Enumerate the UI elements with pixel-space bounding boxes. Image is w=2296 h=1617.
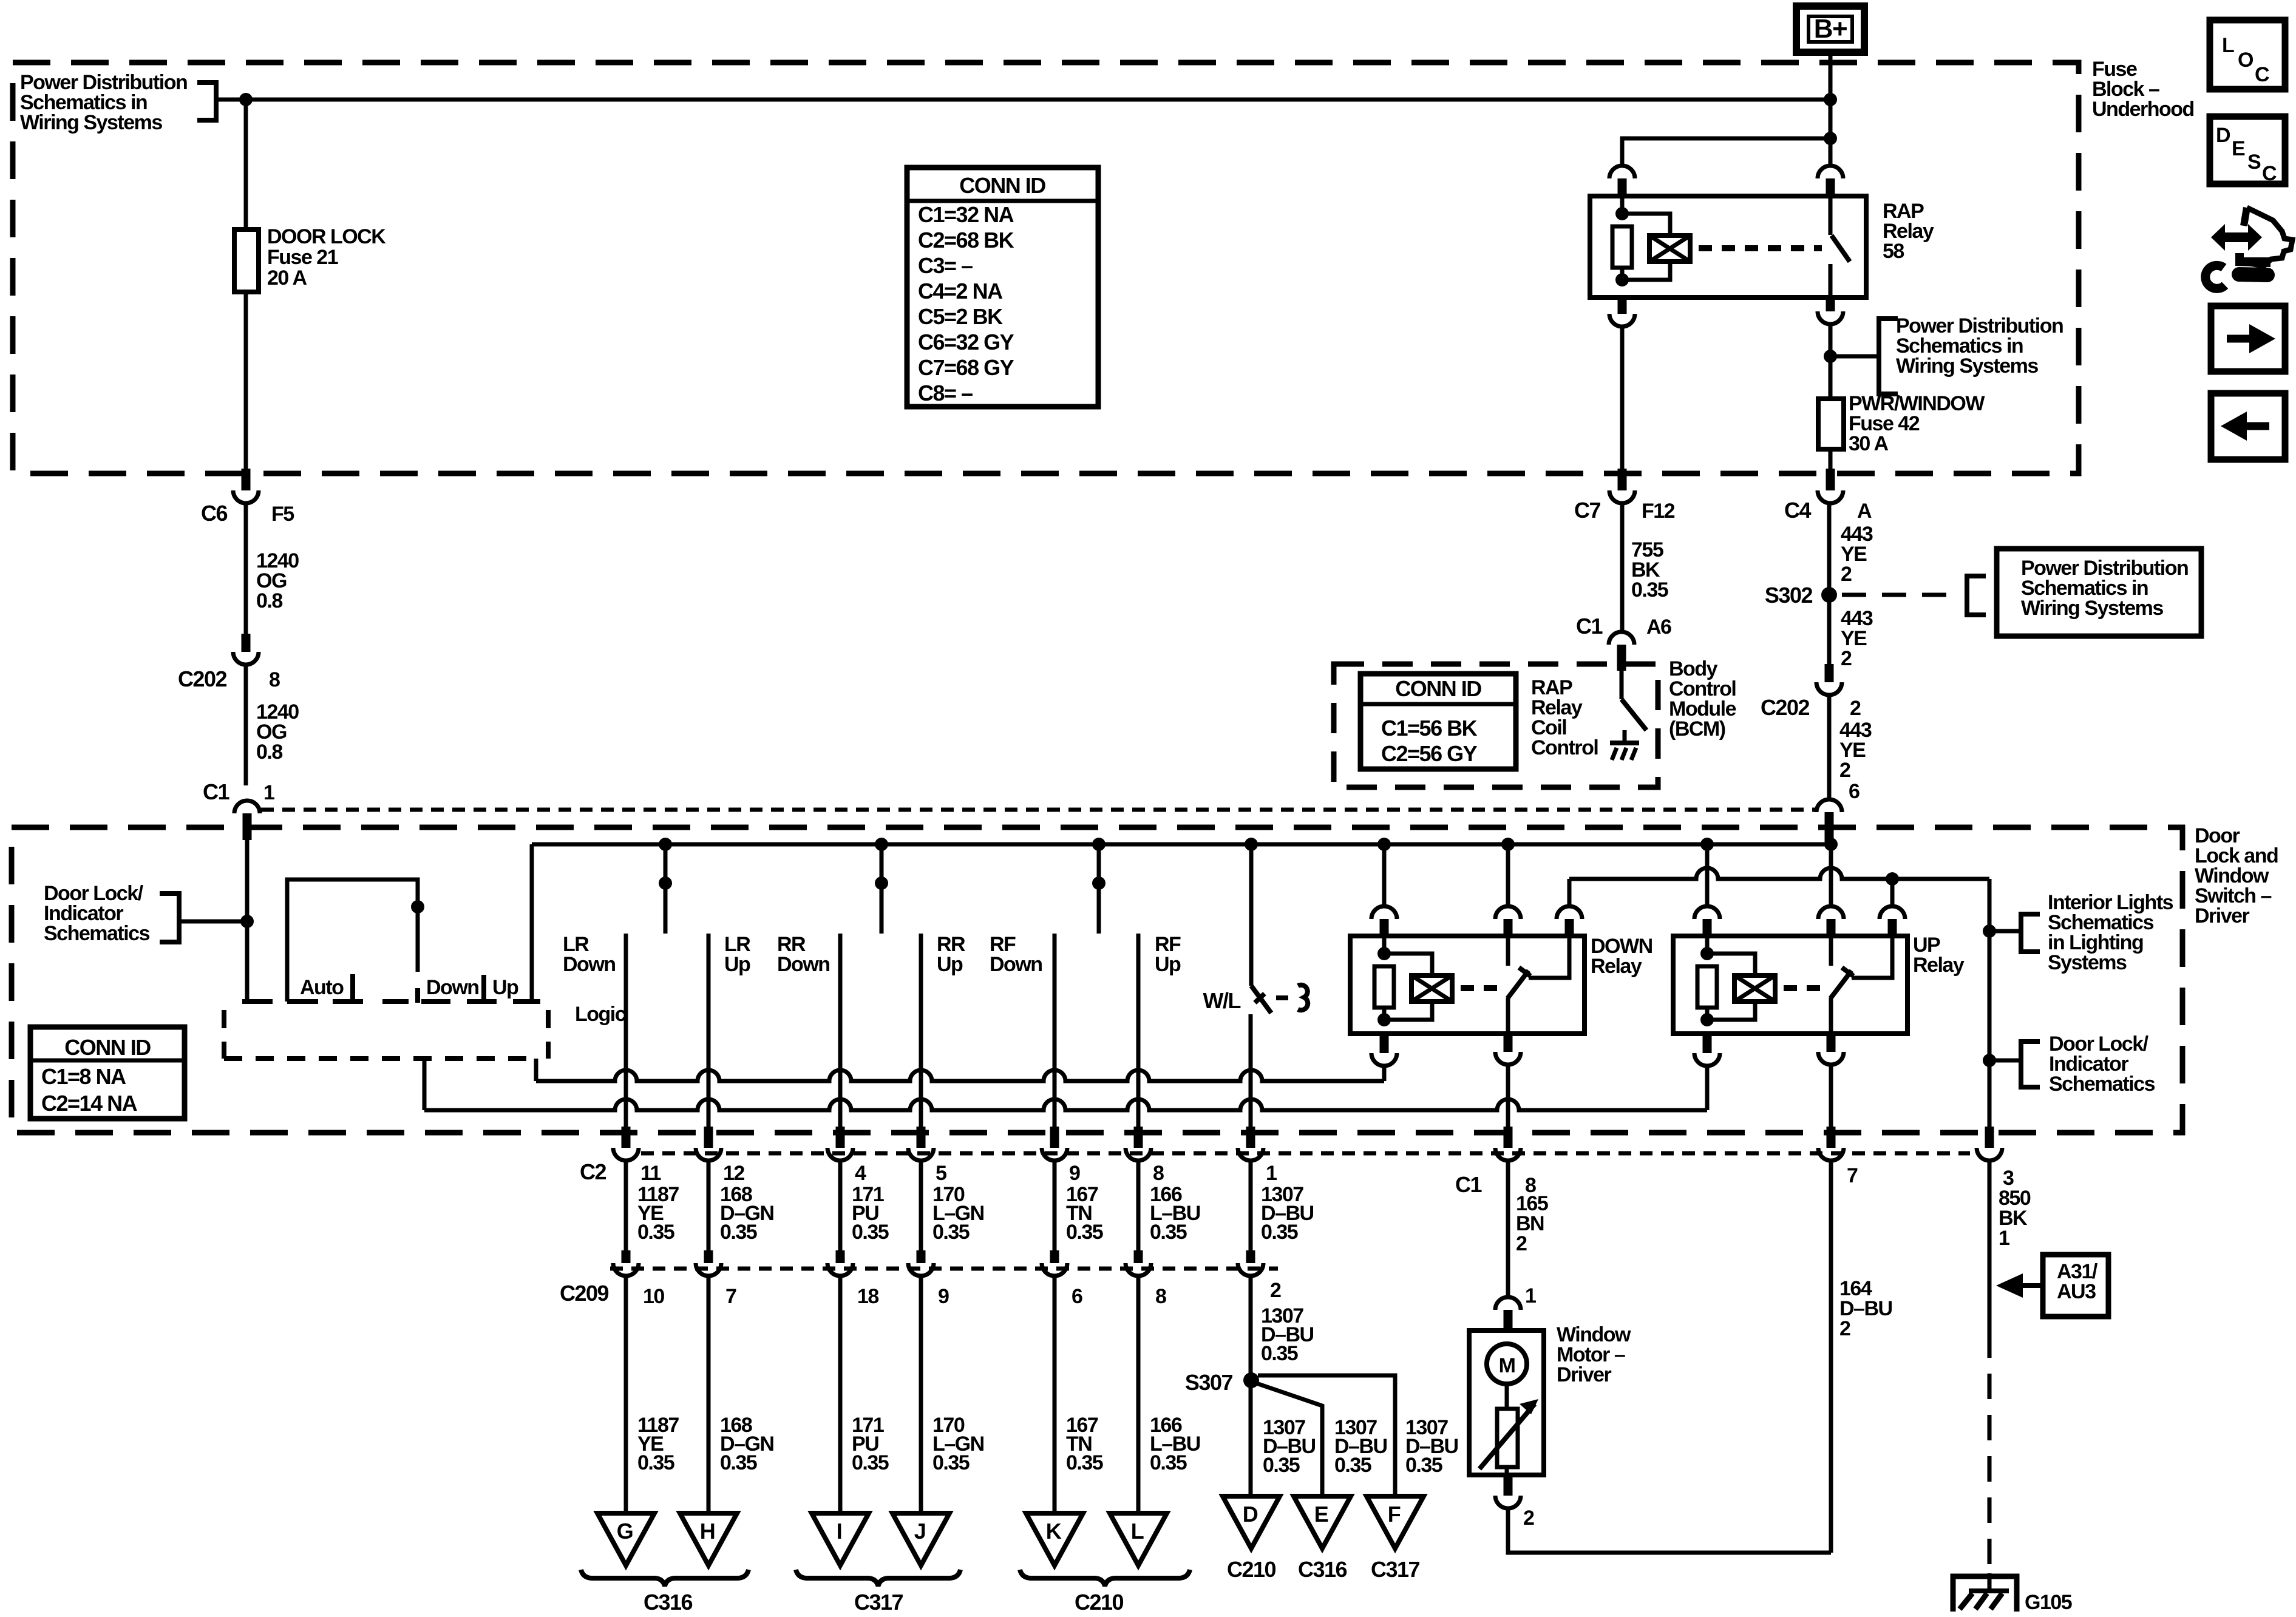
svg-text:C202: C202 — [178, 666, 227, 691]
wire fuse 42 to C4 — [1829, 449, 1833, 469]
wire B+ down to feed — [1829, 52, 1833, 166]
DOWN relay switch — [1506, 936, 1510, 966]
svg-text:Driver: Driver — [1557, 1363, 1612, 1386]
svg-text:C7=68 GY: C7=68 GY — [918, 355, 1014, 380]
wire 171 PU 0.35 lower — [838, 1276, 843, 1513]
ground G105 — [1953, 1576, 2017, 1612]
switch contact tick Down — [415, 988, 420, 1003]
wire switch output 171 PU upper — [838, 934, 843, 1129]
svg-text:A: A — [1857, 500, 1872, 523]
RAP relay box — [1590, 196, 1866, 297]
svg-text:CONN ID: CONN ID — [64, 1035, 151, 1060]
icon hand wrench — [2211, 224, 2262, 251]
terminator triangle J — [892, 1513, 949, 1565]
svg-text:O: O — [2238, 49, 2254, 72]
connector RAP relay switch pin bottom — [1826, 296, 1835, 311]
svg-text:Systems: Systems — [2048, 951, 2127, 974]
svg-text:2: 2 — [1850, 697, 1861, 720]
ground BCM internal — [1623, 730, 1627, 743]
wire 164 D-BU 2 — [1829, 1161, 1833, 1553]
bracket power distribution right — [1879, 319, 1898, 394]
UP relay box — [1673, 936, 1907, 1034]
switch contact tick Up — [481, 975, 486, 1003]
svg-text:G: G — [617, 1519, 633, 1544]
svg-text:Down: Down — [563, 953, 616, 976]
svg-text:C210: C210 — [1075, 1590, 1124, 1615]
svg-text:C209: C209 — [560, 1281, 609, 1306]
connector C2 pin 12 — [704, 1127, 713, 1148]
splice S302 — [1821, 587, 1837, 603]
svg-text:CONN ID: CONN ID — [959, 173, 1045, 198]
connector C1 pin 7 — [1827, 1127, 1836, 1148]
svg-text:Wiring Systems: Wiring Systems — [20, 111, 162, 134]
wire relay aux link — [1569, 868, 1989, 879]
svg-text:1: 1 — [1999, 1227, 2009, 1250]
UP relay coil resistor — [1705, 936, 1710, 954]
terminator triangle K — [1026, 1513, 1083, 1565]
wire interior lights drop — [1988, 879, 1992, 1129]
switch rocker outline — [287, 880, 418, 1002]
dashed link W/L — [1276, 995, 1288, 1000]
wire 850 BK 1 — [1988, 1161, 1992, 1332]
connector DOWN relay switch pin top — [1495, 906, 1521, 919]
node switch logic junction — [240, 915, 254, 928]
bracket door lock indicator left — [160, 893, 179, 942]
terminator triangle E — [1294, 1496, 1351, 1548]
wire bracket to switch — [179, 920, 247, 924]
door lock and window switch driver dashed box — [12, 827, 2182, 1133]
connector C202 pin 8 (left) — [242, 634, 251, 652]
wire UP relay output down — [1829, 1065, 1833, 1129]
switch feed stub 1 — [664, 844, 668, 934]
fuse PWR/WINDOW Fuse 42 30A — [1818, 399, 1844, 449]
wire RAP switch output down — [1829, 324, 1833, 399]
svg-text:Wiring Systems: Wiring Systems — [1896, 354, 2038, 378]
connector C1 pin 1 (W/L wire) — [1246, 1127, 1255, 1148]
node interior lights tap — [1983, 924, 1996, 938]
connector C209 pin 18 — [836, 1250, 845, 1263]
svg-text:2: 2 — [1270, 1279, 1281, 1302]
fuse block underhood dashed box — [13, 63, 2079, 473]
svg-text:4: 4 — [855, 1162, 866, 1185]
svg-text:Control: Control — [1531, 736, 1598, 759]
svg-text:E: E — [1314, 1502, 1328, 1527]
svg-text:F5: F5 — [271, 503, 294, 526]
wire UP relay switch feed — [1829, 844, 1833, 906]
connector window motor pin 2 — [1504, 1475, 1513, 1496]
connector C1 pin 8 — [1504, 1127, 1513, 1148]
wire switch output 167 TN upper — [1053, 934, 1057, 1129]
connector C2 pin 8 — [1134, 1127, 1143, 1148]
svg-text:2: 2 — [1839, 759, 1850, 782]
svg-text:C1: C1 — [1455, 1172, 1482, 1197]
svg-text:0.35: 0.35 — [1631, 578, 1668, 602]
svg-text:C: C — [2262, 162, 2277, 185]
wire S307 to F — [1258, 1375, 1395, 1496]
svg-text:11: 11 — [640, 1162, 661, 1185]
svg-text:C2=14 NA: C2=14 NA — [41, 1091, 138, 1116]
wire 167 TN 0.35 mid — [1053, 1161, 1057, 1250]
svg-text:C5=2 BK: C5=2 BK — [918, 304, 1003, 329]
wire 1240 OG 0.8 upper — [244, 503, 248, 634]
connector C209 pin 2 (1307 wire) — [1246, 1250, 1255, 1263]
svg-text:0.35: 0.35 — [1261, 1221, 1298, 1244]
svg-text:58: 58 — [1883, 240, 1904, 263]
svg-text:0.35: 0.35 — [1334, 1454, 1371, 1477]
svg-text:8: 8 — [269, 668, 280, 691]
UP relay switch — [1829, 936, 1833, 966]
dotted boundary line BCM/switch — [261, 808, 1815, 812]
svg-text:0.35: 0.35 — [932, 1221, 970, 1244]
svg-text:Underhood: Underhood — [2092, 98, 2194, 121]
connector UP relay aux pin top — [1880, 906, 1905, 919]
wire switch output 1187 YE upper — [624, 934, 628, 1129]
wire logic line B to UP relay coil — [423, 1059, 427, 1110]
svg-text:8: 8 — [1153, 1162, 1164, 1185]
wire C1 pin1 into switch — [245, 840, 250, 1002]
DOWN relay box — [1350, 936, 1584, 1034]
node door lock indicator tap right — [1983, 1054, 1996, 1067]
wire 1187 YE 0.35 mid — [624, 1161, 628, 1250]
svg-text:C1=56 BK: C1=56 BK — [1381, 716, 1478, 741]
svg-text:2: 2 — [1839, 1317, 1850, 1340]
svg-text:C4: C4 — [1784, 498, 1811, 523]
arrow from A31/AU3 — [2008, 1283, 2043, 1288]
connector C209 pin 9 — [917, 1250, 926, 1263]
DOWN relay aux contact link — [1529, 936, 1569, 978]
svg-text:1: 1 — [263, 781, 274, 804]
svg-text:Fuse 21: Fuse 21 — [267, 246, 338, 269]
connector UP relay switch pin top — [1818, 906, 1844, 919]
svg-text:9: 9 — [938, 1285, 949, 1308]
switch contact row — [242, 999, 273, 1004]
UP relay aux contact link — [1852, 936, 1892, 978]
svg-text:0.35: 0.35 — [1150, 1451, 1187, 1474]
svg-text:12: 12 — [723, 1162, 744, 1185]
terminator triangle L — [1110, 1513, 1167, 1565]
svg-text:F12: F12 — [1642, 500, 1675, 523]
splice S307 — [1243, 1372, 1259, 1388]
svg-text:C: C — [2255, 63, 2269, 86]
svg-text:Up: Up — [937, 953, 963, 976]
svg-text:J: J — [914, 1519, 926, 1544]
box A31/AU3 — [2043, 1255, 2108, 1317]
connector window motor pin 1 — [1495, 1297, 1521, 1310]
table CONN ID (BCM) — [1360, 674, 1516, 769]
terminator triangle I — [812, 1513, 869, 1565]
svg-text:C2=68 BK: C2=68 BK — [918, 228, 1014, 253]
svg-text:0.35: 0.35 — [720, 1451, 757, 1474]
wire 755 BK 0.35 — [1620, 503, 1625, 632]
svg-text:C8= –: C8= – — [918, 381, 973, 405]
svg-text:20 A: 20 A — [267, 266, 307, 290]
connector RAP relay switch pin top — [1818, 166, 1843, 178]
switch RAP relay coil control (in BCM) — [1620, 671, 1624, 699]
svg-text:CONN ID: CONN ID — [1395, 676, 1481, 701]
wire S307 to E — [1253, 1382, 1322, 1496]
brace C316 — [581, 1570, 749, 1586]
svg-text:C1: C1 — [203, 779, 229, 804]
svg-text:Down: Down — [777, 953, 830, 976]
connector UP relay coil pin bottom — [1703, 1034, 1712, 1053]
svg-text:S302: S302 — [1765, 583, 1813, 608]
wire RAP relay feed branch — [1824, 132, 1837, 145]
switch feed stub 3 — [1097, 844, 1101, 934]
svg-text:H: H — [700, 1519, 715, 1544]
wire to power distribution bracket — [1830, 354, 1879, 359]
UP relay actuation dashed link — [1784, 985, 1822, 991]
svg-text:Logic: Logic — [575, 1003, 626, 1026]
DOWN relay coil resistor — [1382, 936, 1387, 954]
svg-text:B+: B+ — [1814, 14, 1847, 44]
svg-text:Schematics: Schematics — [44, 922, 150, 945]
terminator triangle F — [1367, 1496, 1424, 1548]
svg-text:0.35: 0.35 — [1261, 1342, 1298, 1365]
svg-text:2: 2 — [1516, 1232, 1527, 1255]
connector C209 pin 10 — [622, 1250, 631, 1263]
wire 165 BN 2 — [1506, 1161, 1510, 1297]
motor Window Motor - Driver — [1469, 1331, 1544, 1475]
wire supply bus — [532, 842, 1829, 847]
svg-text:C7: C7 — [1574, 498, 1600, 523]
svg-text:C1=8 NA: C1=8 NA — [41, 1064, 126, 1089]
wire 1307 D-BU 0.35 to S307 — [1249, 1276, 1253, 1496]
svg-text:C210: C210 — [1227, 1557, 1276, 1582]
svg-text:7: 7 — [725, 1285, 736, 1308]
svg-text:1: 1 — [1525, 1284, 1536, 1307]
table CONN ID (fuse block) — [907, 168, 1098, 407]
connector C7 pin F12 — [1618, 469, 1627, 490]
wire DOWN relay switch feed — [1506, 844, 1510, 906]
svg-text:Wiring Systems: Wiring Systems — [2021, 597, 2163, 620]
svg-text:C6=32 GY: C6=32 GY — [918, 330, 1014, 354]
logic dashed box — [222, 1010, 226, 1059]
module Body Control Module dashed box — [1334, 664, 1658, 787]
connector C1 pin 3 — [1985, 1127, 1994, 1148]
icon DESC box — [2210, 117, 2285, 184]
connector C4 pin A — [1826, 469, 1835, 490]
connector RAP relay coil pin bottom — [1618, 296, 1627, 314]
svg-text:0.35: 0.35 — [1263, 1454, 1300, 1477]
wire 1240 OG 0.8 lower — [244, 665, 248, 785]
svg-text:0.8: 0.8 — [256, 741, 282, 764]
bracket door lock indicator right — [2021, 1042, 2040, 1087]
svg-text:5: 5 — [936, 1162, 946, 1185]
svg-text:0.35: 0.35 — [637, 1451, 674, 1474]
svg-text:Down: Down — [990, 953, 1042, 976]
svg-text:0.35: 0.35 — [932, 1451, 970, 1474]
svg-text:E: E — [2232, 137, 2245, 160]
connector C209 pin 7 — [704, 1250, 713, 1263]
svg-text:18: 18 — [857, 1285, 878, 1308]
svg-text:9: 9 — [1069, 1162, 1080, 1185]
connector C2 pin 4 — [836, 1127, 845, 1148]
svg-text:L: L — [1131, 1519, 1144, 1544]
terminator triangle D — [1223, 1496, 1280, 1548]
wire RAP coil to C7 — [1620, 327, 1625, 469]
connector DOWN relay aux pin top — [1557, 906, 1582, 919]
dotted connector row C209 — [610, 1267, 1278, 1271]
svg-text:C1=32 NA: C1=32 NA — [918, 202, 1014, 227]
connector C6 F5 — [242, 469, 251, 490]
svg-text:Up: Up — [492, 976, 518, 999]
connector C209 pin 6 — [1050, 1250, 1059, 1263]
icon LOC box — [2210, 20, 2285, 89]
svg-text:6: 6 — [1072, 1285, 1082, 1308]
svg-text:Up: Up — [1155, 953, 1181, 976]
wire motor return — [1508, 1508, 1831, 1553]
svg-text:C1: C1 — [1576, 614, 1603, 639]
svg-text:2: 2 — [1841, 563, 1852, 586]
table CONN ID (driver switch) — [30, 1027, 185, 1119]
bracket top left power distribution — [197, 83, 216, 120]
DOWN relay coil solenoid — [1384, 954, 1432, 975]
svg-text:0.8: 0.8 — [256, 589, 282, 612]
svg-text:C317: C317 — [854, 1590, 903, 1615]
node power distribution tap right — [1824, 350, 1837, 363]
svg-text:Driver: Driver — [2195, 904, 2250, 927]
svg-text:C2=56 GY: C2=56 GY — [1381, 741, 1478, 766]
UP relay coil solenoid — [1707, 954, 1755, 975]
RAP relay actuation dashed link — [1699, 245, 1822, 251]
connector DOWN relay coil pin top — [1371, 906, 1397, 919]
wire UP relay coil feed — [1705, 844, 1710, 906]
svg-text:I: I — [837, 1519, 842, 1544]
wire 443 YE 2 segment C — [1827, 695, 1832, 799]
svg-text:C316: C316 — [1298, 1557, 1347, 1582]
wire W/L feed — [1249, 844, 1254, 986]
terminator triangle H — [680, 1513, 737, 1565]
svg-text:6: 6 — [1849, 780, 1860, 803]
wire ground dashed — [1988, 1332, 1992, 1573]
svg-text:7: 7 — [1847, 1164, 1858, 1187]
svg-text:C316: C316 — [644, 1590, 693, 1615]
svg-text:Down: Down — [426, 976, 479, 999]
bracket S302 power distribution — [1967, 576, 1986, 615]
svg-text:Relay: Relay — [1913, 954, 1965, 977]
svg-text:Schematics: Schematics — [2049, 1073, 2155, 1096]
svg-text:M: M — [1499, 1354, 1515, 1377]
connector C2 pin 9 — [1050, 1127, 1059, 1148]
svg-text:2: 2 — [1841, 647, 1852, 670]
variable resistor (motor) — [1497, 1409, 1518, 1467]
connector C202 pin 2 (right) — [1825, 664, 1834, 682]
svg-text:F: F — [1388, 1502, 1401, 1527]
bracket interior lights — [2021, 914, 2040, 952]
svg-text:DOOR LOCK: DOOR LOCK — [267, 225, 386, 248]
svg-text:0.35: 0.35 — [1405, 1454, 1442, 1477]
wire 170 L–GN 0.35 lower — [919, 1276, 923, 1513]
connector C209 pin 8 — [1134, 1250, 1143, 1263]
svg-text:0.35: 0.35 — [852, 1451, 889, 1474]
svg-text:C4=2 NA: C4=2 NA — [918, 279, 1003, 303]
box Power Distribution Schematics in Wiring Systems (S302) — [1997, 549, 2201, 636]
fuse DOOR LOCK Fuse 21 20A — [234, 229, 259, 292]
W/L mechanical link symbol — [1298, 985, 1308, 1010]
icon arrow left box — [2211, 393, 2285, 459]
svg-text:0.35: 0.35 — [1066, 1221, 1103, 1244]
svg-text:C317: C317 — [1371, 1557, 1420, 1582]
svg-text:(BCM): (BCM) — [1669, 717, 1725, 741]
svg-text:G105: G105 — [2025, 1591, 2072, 1614]
svg-text:Relay: Relay — [1591, 955, 1642, 978]
svg-text:S: S — [2247, 151, 2261, 174]
svg-text:AU3: AU3 — [2057, 1280, 2096, 1303]
svg-text:2: 2 — [1523, 1507, 1534, 1530]
wire main feed horizontal — [216, 98, 1830, 102]
wire DOWN relay coil feed — [1382, 844, 1387, 906]
svg-text:0.35: 0.35 — [1066, 1451, 1103, 1474]
connector C2 pin 11 — [622, 1127, 631, 1148]
wire switch output 168 D–GN upper — [707, 934, 711, 1129]
switch frame right — [530, 844, 534, 1002]
wire 170 L–GN 0.35 mid — [919, 1161, 923, 1250]
connector UP relay switch pin bottom — [1827, 1034, 1836, 1052]
svg-text:K: K — [1046, 1519, 1062, 1544]
wire 168 D–GN 0.35 mid — [707, 1161, 711, 1250]
svg-text:8: 8 — [1155, 1285, 1166, 1308]
svg-text:0.35: 0.35 — [852, 1221, 889, 1244]
brace C210 — [1020, 1570, 1190, 1586]
svg-text:10: 10 — [643, 1285, 664, 1308]
svg-text:1: 1 — [1266, 1162, 1277, 1185]
svg-text:Auto: Auto — [300, 976, 344, 999]
svg-text:30 A: 30 A — [1849, 432, 1889, 455]
svg-text:W/L: W/L — [1203, 988, 1241, 1013]
wire logic line A to DOWN relay coil — [534, 1059, 538, 1081]
svg-text:C6: C6 — [201, 501, 227, 526]
RAP relay coil solenoid — [1622, 214, 1670, 236]
RAP relay coil resistor — [1620, 196, 1625, 214]
svg-text:0.35: 0.35 — [637, 1221, 674, 1244]
node main feed junction — [1824, 93, 1837, 106]
svg-text:Up: Up — [724, 953, 750, 976]
terminator triangle G — [597, 1513, 654, 1565]
node rocker junction — [411, 900, 424, 914]
svg-text:0.35: 0.35 — [1150, 1221, 1187, 1244]
wire door lock fuse to C6 — [244, 292, 248, 469]
wire switch output 170 L–GN upper — [919, 934, 923, 1129]
svg-text:C3= –: C3= – — [918, 253, 973, 278]
connector DOWN relay coil pin bottom — [1380, 1034, 1389, 1053]
dotted connector row C2/C1 — [641, 1151, 1970, 1156]
wire 166 L–BU 0.35 lower — [1136, 1276, 1141, 1513]
svg-text:D: D — [2216, 124, 2230, 147]
RAP relay switch — [1829, 196, 1833, 235]
wire 167 TN 0.35 lower — [1053, 1276, 1057, 1513]
dashed link S302 to power distribution — [1842, 593, 1960, 597]
wire to door lock fuse — [244, 100, 248, 229]
svg-text:D: D — [1243, 1502, 1258, 1527]
svg-text:C202: C202 — [1761, 695, 1810, 720]
svg-text:L: L — [2222, 34, 2234, 57]
wire switch output 166 L–BU upper — [1136, 934, 1141, 1129]
switch contact tick Auto — [350, 974, 355, 1003]
wire 166 L–BU 0.35 mid — [1136, 1161, 1141, 1250]
wire 443 YE 2 segment A — [1827, 503, 1832, 664]
switch feed stub 2 — [880, 844, 884, 934]
wire DOWN relay output down — [1506, 1065, 1510, 1129]
svg-text:C2: C2 — [580, 1159, 606, 1184]
DOWN relay actuation dashed link — [1461, 985, 1500, 991]
connector UP relay coil pin top — [1694, 906, 1720, 919]
svg-text:A6: A6 — [1646, 615, 1671, 639]
power symbol B+ — [1796, 6, 1864, 52]
connector DOWN relay switch pin bottom — [1504, 1034, 1513, 1052]
svg-text:0.35: 0.35 — [720, 1221, 757, 1244]
connector C2 pin 5 — [917, 1127, 926, 1148]
svg-text:S307: S307 — [1185, 1370, 1233, 1395]
